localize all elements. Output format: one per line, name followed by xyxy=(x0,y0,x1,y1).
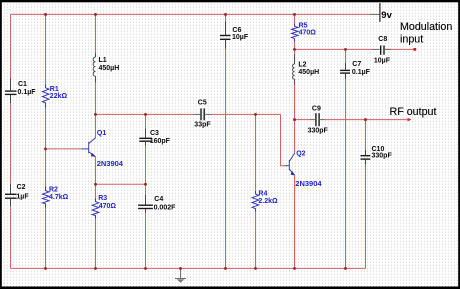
svg-text:RF output: RF output xyxy=(390,106,437,118)
svg-text:L1: L1 xyxy=(99,57,107,64)
svg-text:C9: C9 xyxy=(312,106,321,113)
svg-text:Modulation: Modulation xyxy=(400,21,452,33)
svg-text:470Ω: 470Ω xyxy=(299,30,317,37)
svg-text:0.002F: 0.002F xyxy=(154,205,177,212)
svg-text:C7: C7 xyxy=(352,61,361,68)
svg-text:2N3904: 2N3904 xyxy=(295,179,322,188)
svg-text:0.1µF: 0.1µF xyxy=(352,69,371,76)
svg-text:R2: R2 xyxy=(49,187,58,194)
svg-text:450µH: 450µH xyxy=(99,65,120,72)
svg-text:R3: R3 xyxy=(98,195,107,202)
svg-text:10µF: 10µF xyxy=(374,58,391,65)
svg-text:33pF: 33pF xyxy=(194,122,211,129)
svg-text:C3: C3 xyxy=(150,130,159,137)
svg-text:2.2kΩ: 2.2kΩ xyxy=(258,198,278,205)
svg-text:C4: C4 xyxy=(154,196,163,203)
svg-text:C8: C8 xyxy=(378,36,387,43)
svg-text:Q1: Q1 xyxy=(97,130,106,137)
svg-text:2N3904: 2N3904 xyxy=(97,159,124,168)
svg-text:330pF: 330pF xyxy=(308,128,329,135)
svg-text:Q2: Q2 xyxy=(296,150,305,157)
svg-text:C1: C1 xyxy=(18,81,27,88)
svg-text:R1: R1 xyxy=(50,86,59,93)
svg-text:4.7kΩ: 4.7kΩ xyxy=(49,194,69,201)
svg-text:22kΩ: 22kΩ xyxy=(50,93,68,100)
svg-text:160pF: 160pF xyxy=(150,138,171,145)
svg-text:R4: R4 xyxy=(258,191,267,198)
svg-text:input: input xyxy=(400,33,423,45)
svg-text:C2: C2 xyxy=(17,184,26,191)
svg-text:1µF: 1µF xyxy=(16,194,29,201)
svg-text:9v: 9v xyxy=(381,10,392,21)
svg-text:L2: L2 xyxy=(298,62,306,69)
svg-text:R5: R5 xyxy=(299,22,308,29)
svg-text:10µF: 10µF xyxy=(232,34,249,41)
svg-text:0.1µF: 0.1µF xyxy=(18,89,37,96)
svg-text:330pF: 330pF xyxy=(372,153,393,160)
svg-text:470Ω: 470Ω xyxy=(99,203,117,210)
svg-text:C5: C5 xyxy=(198,100,207,107)
svg-text:450µH: 450µH xyxy=(298,69,319,76)
